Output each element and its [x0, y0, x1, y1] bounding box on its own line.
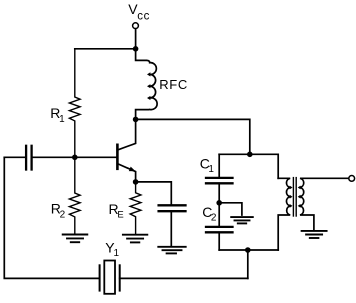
coupling capacitor — [4, 156, 26, 158]
transistor Q1 base bar — [116, 145, 119, 169]
wire tank bottom to crystal rail — [247, 250, 249, 278]
ground at RE — [123, 235, 147, 243]
node base junction — [72, 155, 78, 161]
wire tank node to transformer primary top — [250, 154, 278, 178]
node collector junction — [133, 117, 139, 123]
transformer T1 secondary — [300, 178, 349, 229]
capacitor C1 — [218, 154, 220, 178]
svg-text:RFC: RFC — [159, 77, 188, 92]
resistor R1 — [69, 49, 80, 158]
resistor R2 — [69, 157, 80, 234]
transistor Q1 emitter — [117, 164, 135, 182]
node C1 C2 midpoint — [216, 200, 222, 206]
node Vcc junction — [133, 46, 139, 52]
capacitor C2 — [218, 203, 220, 227]
ground at bypass capacitor — [158, 247, 185, 254]
node emitter junction — [133, 179, 139, 185]
wire Vcc node to R1 — [75, 48, 136, 50]
wire Vcc terminal to node — [135, 29, 137, 49]
ground at C1 C2 midpoint — [231, 217, 253, 223]
ground at R2 — [63, 235, 88, 243]
Vcc terminal — [133, 23, 139, 29]
inductor RFC — [136, 49, 158, 120]
wire tank node to C1 — [219, 153, 250, 155]
transistor Q1 collector — [117, 119, 135, 150]
wire crystal to tank bottom — [120, 277, 248, 279]
resistor RE — [130, 182, 141, 235]
wire collector node to tank top — [136, 119, 250, 154]
crystal Y1 — [99, 265, 101, 290]
ground at secondary — [302, 231, 327, 238]
wire tank bottom — [219, 249, 278, 251]
output terminal — [349, 176, 355, 182]
wire base — [75, 156, 118, 158]
transformer T1 primary — [278, 178, 290, 250]
bypass capacitor — [159, 204, 186, 206]
node tank bottom junction — [245, 247, 251, 253]
left rail wire — [4, 157, 99, 278]
wire midpoint to ground — [219, 203, 242, 215]
transformer T1 core — [292, 178, 294, 216]
wire emitter to bypass capacitor — [136, 182, 172, 205]
node tank top junction — [247, 152, 253, 158]
